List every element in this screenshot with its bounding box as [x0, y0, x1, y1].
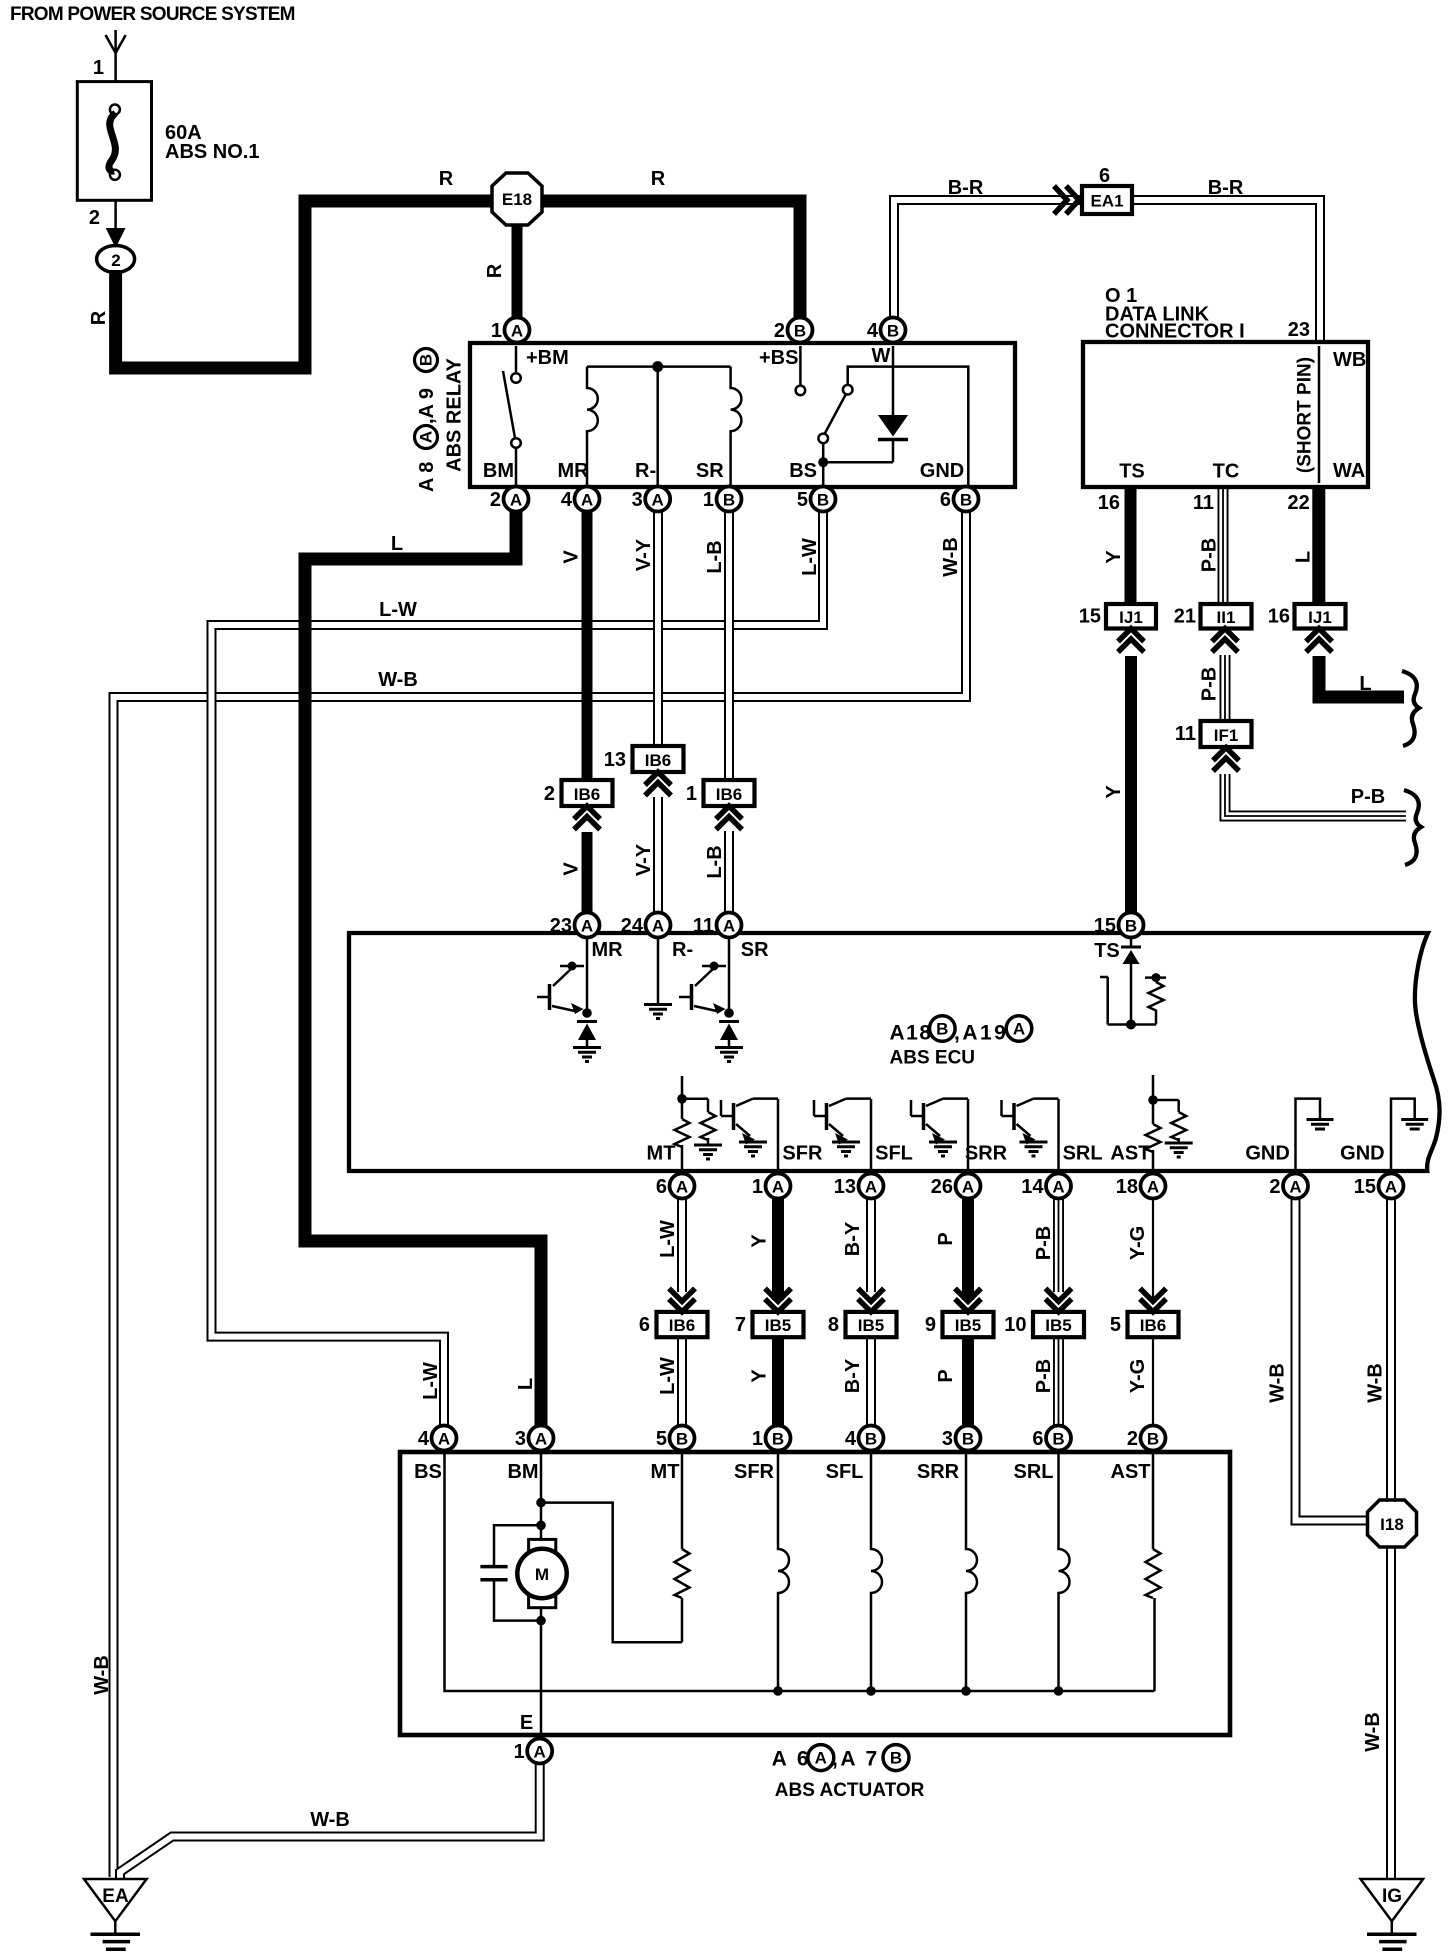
svg-text:3: 3 — [515, 1428, 526, 1450]
svg-text:11: 11 — [693, 915, 714, 937]
wire P-B from data link pin 11 TC to 21 II1 (black triple outer) — [1218, 487, 1229, 605]
svg-text:B: B — [1052, 1430, 1064, 1449]
pin 24(A) ECU R- — [621, 913, 671, 938]
svg-text:23: 23 — [550, 915, 572, 937]
svg-text:Y-G: Y-G — [1127, 1359, 1149, 1393]
svg-text:15: 15 — [1094, 915, 1116, 937]
ECU box A18/A19 ABS ECU with torn right edge — [349, 933, 1440, 1171]
ECU transistor SRR driver — [911, 1099, 968, 1170]
svg-text:3: 3 — [632, 489, 643, 511]
actuator node dot BM top — [536, 1498, 546, 1508]
actuator pump motor M — [517, 1503, 566, 1621]
svg-text:EA: EA — [102, 1886, 129, 1907]
svg-text:IJ1: IJ1 — [1308, 608, 1332, 627]
svg-text:IB6: IB6 — [1140, 1316, 1166, 1335]
svg-text:P-B: P-B — [1199, 538, 1221, 572]
pin 2(A) ECU GND — [1269, 1174, 1308, 1199]
relay box A8/A9 ABS RELAY — [470, 343, 1015, 487]
svg-text:13: 13 — [834, 1176, 856, 1198]
svg-text:3: 3 — [942, 1428, 953, 1450]
svg-text:AST: AST — [1111, 1461, 1151, 1483]
actuator E wire from motor to pin 1A — [540, 1621, 543, 1733]
svg-text:R: R — [88, 310, 110, 325]
svg-text:15: 15 — [1079, 606, 1101, 628]
fuse 60A ABS NO.1 feed wire with open arrowhead — [106, 30, 126, 82]
svg-text:16: 16 — [1268, 606, 1290, 628]
svg-text:A: A — [438, 1430, 450, 1449]
ECU internal ground hook at pin GND 15A — [1391, 1099, 1428, 1170]
data link internal divider for short pin column — [1318, 346, 1321, 483]
svg-text:B-Y: B-Y — [842, 1358, 864, 1393]
pin 5(B) relay BS — [797, 487, 836, 512]
svg-text:BM: BM — [507, 1461, 538, 1483]
fuse terminal circle bottom — [110, 170, 120, 180]
svg-text:5: 5 — [656, 1428, 667, 1450]
svg-text:BS: BS — [414, 1461, 442, 1483]
svg-text:2: 2 — [1269, 1176, 1280, 1198]
ECU transistor SFR driver — [721, 1099, 778, 1170]
wire P-B from ECU pin 14A to connector 10 IB5 (black triple outer) — [1053, 1198, 1064, 1292]
svg-text:1: 1 — [686, 783, 697, 805]
svg-text:4: 4 — [561, 489, 573, 511]
wire P-B from 21 II1 to 11 IF1 (black triple outer) — [1220, 655, 1231, 722]
svg-text:SRR: SRR — [917, 1461, 960, 1483]
connector 10 IB5 box — [1033, 1312, 1084, 1337]
pin 1(B) relay SR — [703, 487, 742, 512]
wire W-B from relay pin 6B down-left to ground EA (black outer) — [114, 512, 967, 1877]
connector 5 IB6 box — [1128, 1312, 1179, 1337]
pin 14(A) ECU SRL — [1021, 1174, 1071, 1199]
svg-text:B: B — [1125, 917, 1137, 936]
svg-text:SRR: SRR — [965, 1143, 1008, 1165]
svg-text:6: 6 — [639, 1314, 650, 1336]
svg-text:SR: SR — [741, 939, 769, 961]
wire P thick from 9 IB5 to actuator pin 3B — [962, 1337, 974, 1426]
svg-text:A: A — [652, 491, 664, 510]
svg-text:B: B — [772, 1430, 784, 1449]
ground IG triangle — [1361, 1879, 1424, 1949]
wire L thick from relay pin 2A down-left-down-right to actuator pin 3A — [305, 511, 541, 1426]
svg-text:W-B: W-B — [378, 669, 418, 691]
svg-text:IJ1: IJ1 — [1119, 608, 1143, 627]
actuator MT resistor — [675, 1549, 690, 1598]
relay wire R- junction to pin 3A — [656, 367, 659, 486]
svg-text:L-W: L-W — [657, 1357, 679, 1395]
svg-text:TS: TS — [1119, 461, 1145, 483]
middle hairlines of P-B triple wires — [1222, 487, 1224, 605]
svg-text:11: 11 — [1193, 492, 1214, 514]
svg-text:5: 5 — [1110, 1314, 1121, 1336]
svg-text:,A 7: ,A 7 — [832, 1748, 880, 1771]
svg-text:B-Y: B-Y — [842, 1221, 864, 1256]
pin 15(B) ECU TS — [1094, 913, 1144, 938]
continuation brace on P-B wire right edge — [1404, 790, 1421, 865]
arrow chevron down into 7 IB5 — [765, 1288, 791, 1312]
svg-text:GND: GND — [1340, 1143, 1384, 1165]
ECU ground on R- line — [644, 937, 672, 1019]
svg-text:B: B — [887, 322, 899, 341]
relay node BS junction dot — [818, 457, 828, 467]
actuator AST resistor branch — [1153, 1454, 1155, 1691]
svg-text:GND: GND — [1245, 1143, 1289, 1165]
svg-text:L: L — [391, 533, 403, 555]
svg-text:W: W — [872, 345, 891, 367]
svg-text:GND: GND — [920, 460, 964, 482]
svg-text:8: 8 — [828, 1314, 839, 1336]
svg-text:V: V — [561, 550, 583, 564]
svg-text:AST: AST — [1110, 1143, 1150, 1165]
svg-text:23: 23 — [1288, 319, 1310, 341]
svg-text:1: 1 — [752, 1176, 763, 1198]
svg-text:18: 18 — [1116, 1176, 1138, 1198]
pin 6(B) actuator SRL — [1032, 1426, 1071, 1451]
svg-text:,A 9: ,A 9 — [416, 388, 438, 424]
arrow chevron up into 11 IF1 — [1213, 748, 1239, 772]
pin 6(B) relay GND — [940, 487, 979, 512]
svg-text:21: 21 — [1174, 606, 1196, 628]
svg-text:B-R: B-R — [1208, 177, 1244, 199]
svg-text:10: 10 — [1004, 1314, 1026, 1336]
svg-text:4: 4 — [845, 1428, 857, 1450]
pin 4(A) actuator BS — [418, 1426, 457, 1451]
wire Y thick from 15 IJ1 to ECU pin 15B — [1125, 656, 1137, 913]
arrow chevron up into 21 II1 — [1212, 629, 1238, 653]
arrow chevron down into 9 IB5 — [955, 1288, 981, 1312]
white cores of double wires — [655, 512, 661, 748]
fuse terminal circle top — [110, 105, 120, 115]
svg-text:L-W: L-W — [799, 538, 821, 576]
svg-text:IB6: IB6 — [645, 751, 671, 770]
svg-text:L-B: L-B — [704, 845, 726, 878]
pin 11(A) ECU SR — [693, 913, 742, 938]
svg-text:16: 16 — [1098, 492, 1120, 514]
svg-text:14: 14 — [1021, 1176, 1044, 1198]
svg-text:B: B — [817, 491, 829, 510]
connector 15 IJ1 box — [1106, 604, 1156, 629]
wire R from E18 down to relay pin 1A — [512, 224, 523, 319]
pin 1(A) actuator E — [514, 1739, 553, 1764]
wire L-B from 1 IB6 to ECU pin 11A (black outer) — [724, 831, 734, 913]
ECU transistor SR driver — [679, 937, 734, 1018]
svg-text:B: B — [962, 1430, 974, 1449]
svg-text:2: 2 — [111, 251, 120, 270]
svg-text:15: 15 — [1354, 1176, 1376, 1198]
svg-text:6: 6 — [940, 489, 951, 511]
svg-text:V: V — [561, 862, 583, 876]
svg-text:A: A — [417, 431, 436, 443]
svg-text:A: A — [511, 322, 523, 341]
svg-text:R: R — [651, 168, 666, 190]
svg-text:A: A — [581, 491, 593, 510]
connector 16 IJ1 box — [1295, 604, 1346, 629]
wire B-R from relay pin 4B to EA1 to data link connector pin 23 (black outer) — [894, 200, 1320, 344]
LAYER: double-line wires — [114, 200, 1407, 1878]
svg-text:A: A — [723, 917, 735, 936]
wire B-Y from 8 IB5 to actuator pin 4B (black outer) — [866, 1337, 876, 1426]
relay internal link +BM to coils — [587, 365, 731, 368]
connector 11 IF1 box — [1201, 721, 1252, 747]
wire V-Y from relay pin 3A to connector 13 IB6 (black outer) — [653, 512, 663, 748]
pin 13(A) ECU SFL — [834, 1174, 884, 1199]
wire W-B from I18 to ground IG (black outer) — [1386, 1546, 1396, 1878]
svg-text:4: 4 — [867, 320, 879, 342]
svg-text:2: 2 — [774, 320, 785, 342]
svg-text:IB5: IB5 — [858, 1316, 884, 1335]
svg-text:IF1: IF1 — [1214, 726, 1239, 745]
svg-text:A: A — [1013, 1020, 1025, 1039]
svg-text:A: A — [815, 1749, 827, 1768]
svg-text:ABS RELAY: ABS RELAY — [444, 357, 466, 471]
relay switch BM (pin 1A to BM) — [503, 346, 516, 486]
svg-text:II1: II1 — [1217, 608, 1236, 627]
wire R thick from fuse circle 2 down, right, up to E18 — [116, 201, 493, 368]
svg-text:SFR: SFR — [782, 1143, 823, 1165]
actuator name label A 6(A),A 7(B) — [772, 1745, 909, 1771]
svg-text:W-B: W-B — [1362, 1712, 1384, 1752]
svg-text:2: 2 — [89, 207, 100, 229]
relay wire switch top to GND pin 6B — [848, 367, 969, 486]
relay node R- junction dot — [652, 361, 663, 372]
pin 3(A) relay R- — [632, 487, 671, 512]
svg-text:SRL: SRL — [1063, 1143, 1103, 1165]
svg-text:R: R — [484, 263, 506, 278]
svg-text:A: A — [1052, 1178, 1064, 1197]
svg-text:A: A — [534, 1743, 546, 1762]
wire W-B from ECU pin 2A to connector I18 (black outer) — [1296, 1198, 1370, 1521]
ECU transistor SRL driver — [1002, 1099, 1059, 1170]
svg-text:M: M — [535, 1565, 549, 1584]
relay side label A 8(A),A 9(B) rotated — [415, 349, 439, 493]
svg-text:B: B — [794, 322, 806, 341]
wire L-B from relay pin 1B to connector 1 IB6 (black outer) — [724, 512, 734, 782]
svg-text:B: B — [676, 1430, 688, 1449]
wire P thick from ECU pin 26A to 9 IB5 — [962, 1198, 974, 1300]
svg-text:IB6: IB6 — [716, 785, 742, 804]
svg-text:2: 2 — [544, 783, 555, 805]
ECU transistor MR driver — [537, 937, 592, 1018]
pin 2(B) actuator AST — [1127, 1426, 1166, 1451]
svg-text:24: 24 — [621, 915, 644, 937]
svg-text:EA1: EA1 — [1090, 192, 1123, 211]
svg-text:IB5: IB5 — [765, 1316, 791, 1335]
relay coil SR — [731, 367, 742, 486]
svg-text:P-B: P-B — [1033, 1359, 1055, 1393]
pin 5(B) actuator MT — [656, 1426, 695, 1451]
svg-text:A: A — [1289, 1178, 1301, 1197]
svg-text:4: 4 — [418, 1428, 430, 1450]
svg-text:SRL: SRL — [1014, 1461, 1054, 1483]
connector 7 IB5 box — [753, 1312, 804, 1337]
svg-text:TC: TC — [1213, 461, 1240, 483]
pin 1(B) actuator SFR — [752, 1426, 791, 1451]
relay switch BS blade and contacts — [823, 394, 846, 486]
svg-text:ABS ACTUATOR: ABS ACTUATOR — [775, 1780, 925, 1801]
arrow chevron down into 8 IB5 — [858, 1288, 884, 1312]
pin 6(A) ECU MT — [656, 1174, 695, 1199]
svg-text:Y: Y — [1103, 550, 1125, 564]
ECU transistor SFL driver — [814, 1099, 871, 1170]
pin 2(A) relay BM — [490, 487, 529, 512]
connector 9 IB5 box — [943, 1312, 994, 1337]
fuse box 60A ABS NO.1 — [77, 82, 151, 201]
svg-text:B: B — [1147, 1430, 1159, 1449]
svg-text:A: A — [510, 491, 522, 510]
ground EA triangle — [84, 1879, 147, 1949]
relay coil MR — [587, 367, 598, 486]
svg-text:P: P — [935, 1369, 957, 1382]
wire Y thick from ECU pin 1A to 7 IB5 — [772, 1198, 784, 1300]
actuator bus junction dots — [773, 1686, 783, 1696]
wire L thick from 16 IJ1 down then right to continuation brace — [1319, 656, 1404, 697]
svg-text:P-B: P-B — [1033, 1226, 1055, 1260]
svg-text:FROM POWER SOURCE SYSTEM: FROM POWER SOURCE SYSTEM — [10, 4, 295, 25]
svg-text:A18: A18 — [890, 1022, 933, 1045]
svg-text:L-B: L-B — [704, 540, 726, 573]
arrow chevron up into 15 IJ1 — [1118, 629, 1144, 653]
actuator solenoid coil SRL — [1059, 1454, 1070, 1691]
svg-text:MR: MR — [557, 460, 589, 482]
arrow chevron up into 13 IB6 — [645, 772, 671, 796]
svg-text:A: A — [676, 1178, 688, 1197]
wire V from 2 IB6 chevron to ECU pin 23A — [582, 832, 593, 913]
svg-text:A: A — [865, 1178, 877, 1197]
pin 4(B) relay W — [867, 318, 906, 343]
svg-text:A 6: A 6 — [772, 1748, 811, 1771]
wire P-B from 11 IF1 down then right to continuation brace (black triple outer) — [1225, 774, 1406, 816]
svg-text:B: B — [865, 1430, 877, 1449]
actuator MT sensing loop wire — [541, 1454, 682, 1642]
connector I18 octagon — [1368, 1500, 1417, 1547]
LAYER: thick solid wires — [116, 201, 1404, 1426]
actuator box A6/A7 ABS ACTUATOR — [400, 1452, 1230, 1735]
relay wire +BS stub from pin 2B — [799, 346, 802, 386]
svg-text:2: 2 — [490, 489, 501, 511]
wire L thick from data link pin 22 WA to 16 IJ1 — [1312, 487, 1325, 605]
svg-text:,A19: ,A19 — [954, 1022, 1008, 1045]
svg-text:A: A — [535, 1430, 547, 1449]
svg-text:R-: R- — [635, 460, 656, 482]
svg-text:A 8: A 8 — [416, 462, 438, 492]
svg-text:L-W: L-W — [657, 1220, 679, 1258]
svg-text:SFL: SFL — [875, 1143, 913, 1165]
svg-text:IB5: IB5 — [1045, 1316, 1071, 1335]
pin 26(A) ECU SRR — [931, 1174, 981, 1199]
actuator node dot motor bottom — [536, 1616, 546, 1626]
svg-text:MR: MR — [591, 939, 623, 961]
connector E18 octagon — [492, 173, 542, 225]
svg-text:E18: E18 — [502, 190, 532, 209]
svg-text:I18: I18 — [1380, 1515, 1404, 1534]
arrow chevron down into 5 IB6 — [1140, 1288, 1166, 1312]
svg-text:22: 22 — [1288, 492, 1310, 514]
svg-text:ABS NO.1: ABS NO.1 — [165, 141, 259, 163]
svg-text:R-: R- — [672, 939, 693, 961]
connector 8 IB5 box — [846, 1312, 897, 1337]
connector 21 II1 box — [1201, 604, 1252, 629]
svg-text:9: 9 — [925, 1314, 936, 1336]
ECU AST resistor network — [1146, 1075, 1193, 1170]
svg-text:SFL: SFL — [826, 1461, 864, 1483]
connector 1 IB6 box — [704, 780, 755, 806]
arrow chevrons on B-R wire pointing right at EA1 — [1054, 186, 1079, 214]
svg-text:MT: MT — [647, 1143, 676, 1165]
wire L-W from relay pin 5B down-left-down to actuator pin 4A (black outer) — [212, 512, 824, 1426]
ECU clamp diode below SR transistor — [715, 1022, 743, 1062]
ECU name label A18(B),A19(A) — [890, 1016, 1032, 1045]
wire Y-G single thin from 5 IB6 to actuator pin 2B — [1152, 1337, 1154, 1426]
svg-text:2: 2 — [1127, 1428, 1138, 1450]
svg-text:SR: SR — [696, 460, 724, 482]
svg-text:W-B: W-B — [91, 1655, 113, 1695]
svg-text:26: 26 — [931, 1176, 953, 1198]
arrow chevron down into 10 IB5 — [1046, 1288, 1072, 1312]
svg-text:IG: IG — [1382, 1886, 1402, 1907]
svg-text:7: 7 — [735, 1314, 746, 1336]
wire W-B from ECU pin 15A to connector I18 top (black outer) — [1386, 1198, 1396, 1502]
svg-text:IB6: IB6 — [669, 1316, 695, 1335]
data link connector 1 box — [1083, 342, 1368, 487]
relay diode on W line — [892, 346, 895, 462]
pin 4(B) actuator SFL — [845, 1426, 884, 1451]
svg-text:B: B — [960, 491, 972, 510]
svg-text:Y: Y — [749, 1234, 771, 1248]
svg-text:TS: TS — [1094, 940, 1120, 962]
wire L-W from 6 IB6 to actuator pin 5B (black outer) — [677, 1337, 687, 1426]
LAYER: pins — [418, 318, 1404, 1764]
svg-text:IB6: IB6 — [574, 785, 600, 804]
svg-text:B: B — [890, 1749, 902, 1768]
pin 1(A) relay +BM — [491, 318, 530, 343]
actuator capacitor branch — [494, 1525, 541, 1620]
fuse element S-curve — [109, 113, 116, 171]
pin 18(A) ECU AST — [1116, 1174, 1166, 1199]
svg-text:P: P — [935, 1232, 957, 1245]
relay wire BS node to diode — [823, 461, 893, 464]
pin 23(A) ECU MR — [550, 913, 600, 938]
svg-text:CONNECTOR I: CONNECTOR I — [1105, 321, 1245, 343]
continuation brace on L wire right edge — [1402, 671, 1419, 746]
ECU MT output resistor network — [675, 1076, 723, 1170]
svg-text:BS: BS — [789, 460, 817, 482]
svg-text:Y-G: Y-G — [1127, 1226, 1149, 1260]
svg-text:(SHORT PIN): (SHORT PIN) — [1295, 357, 1316, 473]
svg-text:P-B: P-B — [1199, 667, 1221, 701]
svg-text:A: A — [581, 917, 593, 936]
wire L-W from ECU pin 6A to connector 6 IB6 (black outer) — [677, 1198, 687, 1292]
svg-text:+BS: +BS — [759, 347, 798, 369]
wire R thick from E18 right then down to relay pin 2B — [541, 201, 800, 319]
svg-text:B: B — [417, 354, 436, 366]
pin 2(B) relay +BS — [774, 318, 813, 343]
svg-text:6: 6 — [1099, 165, 1110, 187]
svg-text:13: 13 — [604, 749, 626, 771]
fuse lead wire pin 2 with solid arrow — [114, 200, 117, 232]
svg-text:E: E — [520, 1712, 533, 1734]
svg-text:L-W: L-W — [420, 1362, 442, 1400]
svg-text:A: A — [652, 917, 664, 936]
arrow chevron down into 6 IB6 — [669, 1288, 695, 1312]
svg-text:L: L — [1359, 673, 1371, 695]
actuator solenoid coil SFL — [871, 1454, 882, 1691]
wire Y thick from 7 IB5 to actuator pin 1B — [772, 1337, 784, 1426]
svg-text:W-B: W-B — [1267, 1363, 1289, 1403]
svg-text:W-B: W-B — [1365, 1363, 1387, 1403]
wire W-B from actuator pin E 1A down-left to ground EA (black outer) — [120, 1764, 540, 1878]
wire B-Y from ECU pin 13A to connector 8 IB5 (black outer) — [866, 1198, 876, 1292]
svg-text:V-Y: V-Y — [633, 843, 655, 876]
svg-text:W-B: W-B — [310, 1809, 350, 1831]
svg-text:A: A — [1385, 1178, 1397, 1197]
